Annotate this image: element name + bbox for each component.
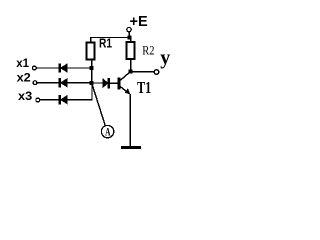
wire diagonal to node A xyxy=(92,84,105,126)
collector lead xyxy=(120,72,130,81)
svg-text:x3: x3 xyxy=(18,89,33,103)
wire R1 top lead xyxy=(90,38,92,42)
svg-text:A: A xyxy=(105,127,111,139)
resistor R1 xyxy=(86,42,94,59)
diode VD2 xyxy=(58,78,67,88)
junction bus-x1 xyxy=(90,66,94,70)
diode VD1 xyxy=(58,63,67,73)
wire top rail xyxy=(90,37,130,39)
emitter lead xyxy=(120,87,128,94)
svg-text:x2: x2 xyxy=(17,71,32,85)
base bar xyxy=(118,78,121,90)
wire base diode to base xyxy=(110,82,118,84)
terminal y xyxy=(154,70,159,75)
junction bus-x2 xyxy=(90,81,94,85)
emitter arrowhead xyxy=(125,88,131,94)
svg-text:R2: R2 xyxy=(142,42,154,57)
wire bus to base diode xyxy=(92,82,103,84)
wire output y xyxy=(131,71,154,73)
terminal x3 xyxy=(36,98,40,102)
svg-text:T1: T1 xyxy=(137,78,151,97)
diode VD3 xyxy=(58,95,67,105)
wire emitter to ground xyxy=(129,94,131,147)
junction collector node xyxy=(129,70,133,74)
transistor T1 xyxy=(118,72,131,95)
junction +E rail xyxy=(128,36,132,40)
terminal x2 xyxy=(33,81,37,85)
wire x1 input xyxy=(37,67,59,69)
wire x1 to bus xyxy=(68,67,92,69)
wire R2 top lead xyxy=(130,38,132,42)
resistor R2 xyxy=(127,42,135,59)
wire x3 input xyxy=(40,99,59,101)
wire +E to rail xyxy=(128,32,130,38)
wire x2 to bus xyxy=(68,82,92,84)
svg-text:+E: +E xyxy=(130,14,148,30)
node A circle xyxy=(101,125,113,137)
terminal x1 xyxy=(33,66,37,70)
svg-text:y: y xyxy=(160,47,170,69)
wire x3 to bus corner xyxy=(68,83,92,100)
svg-text:x1: x1 xyxy=(16,56,29,70)
ground xyxy=(121,146,141,149)
wire R2 bottom lead xyxy=(130,60,132,72)
bus vertical wire xyxy=(91,60,93,84)
terminal +E xyxy=(127,27,131,31)
diode VD4 base xyxy=(102,78,109,89)
wire x2 input xyxy=(37,82,58,84)
